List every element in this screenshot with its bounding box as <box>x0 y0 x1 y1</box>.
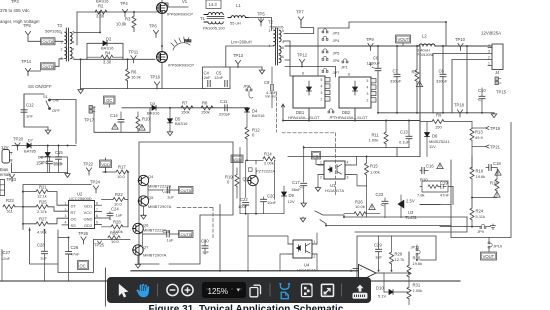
connector J4 <box>488 44 503 75</box>
zoom in icon <box>182 284 193 295</box>
zoom level dropdown 125% <box>202 282 246 298</box>
svg-text:JP5: JP5 <box>333 50 341 55</box>
node VOUT box top <box>396 35 411 46</box>
jumper JP3 <box>322 29 340 36</box>
svg-text:TP21: TP21 <box>490 144 501 149</box>
node OUTA box <box>41 38 56 45</box>
driver block box <box>139 142 233 264</box>
svg-text:3.30: 3.30 <box>96 14 105 19</box>
svg-text:TP8: TP8 <box>23 23 31 28</box>
svg-text:14.3: 14.3 <box>209 2 218 7</box>
svg-text:1uF: 1uF <box>167 194 174 199</box>
resistor R31 <box>407 282 422 304</box>
wire T3 secondary row y59 <box>74 58 155 60</box>
svg-text:VDD: VDD <box>101 162 110 167</box>
svg-text:Q5: Q5 <box>148 195 154 200</box>
svg-text:VOUT: VOUT <box>398 37 410 42</box>
svg-text:TP5: TP5 <box>257 11 265 16</box>
svg-text:S1: S1 <box>43 94 49 99</box>
cursor tool icon <box>119 284 129 298</box>
svg-text:1.00k: 1.00k <box>370 169 380 174</box>
jumper JP8 <box>243 83 253 98</box>
svg-text:C14: C14 <box>110 113 118 118</box>
svg-text:DT: DT <box>71 204 77 209</box>
svg-text:BAT85: BAT85 <box>24 148 37 153</box>
wire left vertical x77 <box>76 12 78 45</box>
resistor R11 <box>369 121 389 148</box>
capacitor C12 <box>21 94 34 127</box>
svg-text:2.37k: 2.37k <box>37 209 47 214</box>
resistor R22 <box>102 192 129 206</box>
test point TP7 <box>296 9 304 24</box>
test point TP13 <box>233 53 244 68</box>
wire Q3 <box>246 160 275 213</box>
svg-text:6: 6 <box>96 214 98 218</box>
test point TP23 <box>6 174 17 182</box>
svg-text:TP7: TP7 <box>296 9 304 14</box>
resistor R28 gate <box>108 230 120 244</box>
svg-text:SS: SS <box>71 223 77 228</box>
resistor R17 <box>103 165 128 180</box>
opamp comparator box <box>357 236 436 302</box>
svg-text:R4: R4 <box>105 50 111 55</box>
ground C17 <box>301 202 306 207</box>
svg-text:JP1: JP1 <box>341 64 349 69</box>
capacitor C25 <box>163 229 174 242</box>
resistor R12 <box>245 112 260 160</box>
bottom signal bus y271 <box>131 270 358 272</box>
test point TP9 <box>366 37 374 51</box>
ground near T2 <box>259 69 264 74</box>
svg-text:R9: R9 <box>436 112 442 117</box>
svg-text:R28: R28 <box>110 230 118 235</box>
svg-text:330uF: 330uF <box>436 78 448 83</box>
snapshot tool icon (blue) <box>279 284 290 299</box>
svg-text:1: 1 <box>488 62 490 66</box>
svg-text:J4: J4 <box>495 70 500 75</box>
capacitor C28 <box>37 230 48 282</box>
resistor R21 <box>36 184 48 198</box>
svg-text:12nF: 12nF <box>202 75 212 80</box>
svg-text:TP17: TP17 <box>84 118 95 123</box>
svg-text:R10: R10 <box>142 117 150 122</box>
svg-text:ON: ON <box>53 98 59 103</box>
wire opamp output <box>384 252 409 292</box>
test point TP20 <box>13 136 24 150</box>
test point TP18 <box>454 102 465 117</box>
svg-text:19.6k: 19.6k <box>413 261 423 266</box>
svg-text:0: 0 <box>252 132 255 137</box>
svg-text:R21: R21 <box>39 184 47 189</box>
net label 375 to 405 Vdc <box>0 8 30 13</box>
switch S1 <box>43 94 61 113</box>
svg-text:15V: 15V <box>36 161 44 166</box>
svg-text:C23: C23 <box>376 192 384 197</box>
svg-text:HPA418A—SLOT: HPA418A—SLOT <box>336 115 368 120</box>
svg-text:OUTA: OUTA <box>181 188 192 193</box>
capacitor C16 <box>420 163 443 174</box>
svg-text:OC: OC <box>80 263 86 268</box>
svg-text:TP24: TP24 <box>90 179 101 184</box>
svg-text:OC: OC <box>106 98 112 103</box>
svg-text:10.0: 10.0 <box>111 239 120 244</box>
svg-text:19.6k: 19.6k <box>476 174 486 179</box>
transformer T2 label <box>268 20 283 30</box>
capacitor C14 <box>110 112 124 132</box>
svg-text:TP3: TP3 <box>11 0 19 4</box>
svg-text:6: 6 <box>348 73 350 77</box>
resistor R10 <box>136 112 150 132</box>
jumper JP4 <box>322 36 340 43</box>
svg-text:1nF: 1nF <box>26 113 33 118</box>
svg-text:C27: C27 <box>3 250 11 255</box>
test point TP14 <box>21 59 32 76</box>
node OUTB box <box>41 63 56 70</box>
jumper JP1 <box>341 59 349 70</box>
mosfet Q2 <box>157 52 195 68</box>
svg-text:7.8k: 7.8k <box>417 192 425 197</box>
svg-text:C17: C17 <box>292 180 300 185</box>
separator <box>157 284 158 297</box>
svg-text:R14: R14 <box>264 151 272 156</box>
svg-text:47nF: 47nF <box>440 192 450 197</box>
svg-text:C18: C18 <box>493 161 501 166</box>
svg-text:JP10: JP10 <box>493 243 503 248</box>
overcurrent box <box>94 104 150 132</box>
svg-text:GD1: GD1 <box>84 204 93 209</box>
resistor R14 <box>263 151 275 165</box>
svg-text:D9: D9 <box>289 193 295 198</box>
node V1 label <box>182 0 188 4</box>
net label Bias external blue <box>0 167 11 177</box>
ground driver B <box>135 255 140 268</box>
resistor R5 <box>412 46 423 113</box>
resistor R26 <box>344 199 380 215</box>
wire left edge vertical <box>104 268 106 306</box>
svg-text:1: 1 <box>11 152 13 156</box>
svg-text:JP8: JP8 <box>243 83 251 88</box>
svg-text:C21: C21 <box>162 188 170 193</box>
power label VDD mid <box>231 155 243 163</box>
test point TP21 <box>472 144 501 149</box>
ground mid bottom <box>300 217 305 222</box>
dashed isolation boundary lower <box>177 208 213 240</box>
jumper JP7 <box>322 68 340 75</box>
transformer T2 <box>274 28 281 65</box>
node OUTB box driver <box>179 231 194 238</box>
svg-text:R23: R23 <box>6 198 14 203</box>
svg-text:R16: R16 <box>476 168 484 173</box>
svg-text:0.1uF: 0.1uF <box>399 139 410 144</box>
wire S1 to VCC rail <box>50 100 77 144</box>
svg-text:TP23: TP23 <box>6 177 17 182</box>
svg-text:4: 4 <box>73 41 75 45</box>
svg-text:GD2: GD2 <box>84 223 93 228</box>
resistor R24 <box>470 208 485 227</box>
bus D3 R7 R8 C11 y108 <box>122 107 248 109</box>
label box OC bottom <box>78 261 89 270</box>
wire ground rail y88.6 <box>81 59 205 88</box>
capacitor C17 <box>292 146 307 203</box>
test point TP24 <box>90 179 101 193</box>
ground JP9 <box>491 224 496 229</box>
diode D5 <box>167 108 188 136</box>
magnetizing inductance note <box>231 40 252 45</box>
svg-text:IPP60R099CP: IPP60R099CP <box>167 11 193 16</box>
transistor Q3 <box>243 168 276 186</box>
diode D2 <box>101 37 114 51</box>
vcc wire y156.5 <box>288 156 420 158</box>
note Danger High Voltage <box>0 19 40 24</box>
wire T2 bottom to C5 box <box>226 46 274 67</box>
svg-text:3: 3 <box>350 269 352 273</box>
svg-text:12.7k: 12.7k <box>395 257 405 262</box>
svg-text:L1: L1 <box>236 3 241 8</box>
svg-text:JP11: JP11 <box>411 244 421 249</box>
svg-text:2: 2 <box>314 255 316 259</box>
capacitor bank box C4 C5 <box>203 67 231 89</box>
wire long y232 <box>355 217 467 232</box>
ic U2 label <box>69 192 92 201</box>
svg-text:R27: R27 <box>39 216 47 221</box>
svg-text:C24: C24 <box>111 206 119 211</box>
wire bottom left frame <box>30 228 130 273</box>
svg-text:3: 3 <box>488 50 490 54</box>
diode D1 top left <box>96 0 109 4</box>
copy pages icon <box>250 285 261 297</box>
capacitor C6 <box>367 46 382 113</box>
wire feedback mid <box>420 198 497 209</box>
svg-text:11V: 11V <box>429 144 436 149</box>
svg-text:Q7: Q7 <box>143 244 149 249</box>
diode D7 <box>24 138 37 153</box>
svg-text:TP22: TP22 <box>83 161 94 166</box>
resistor R16 <box>470 156 485 198</box>
svg-text:TP10: TP10 <box>455 37 466 42</box>
svg-text:FB: FB <box>313 153 318 158</box>
ic U2 UCC25600 <box>65 201 102 229</box>
ground output rail <box>491 113 496 118</box>
svg-text:OUTB: OUTB <box>181 232 192 237</box>
svg-text:1.00k: 1.00k <box>369 138 379 143</box>
svg-text:R25: R25 <box>39 199 47 204</box>
svg-text:R24: R24 <box>476 208 484 213</box>
capacitor C23 <box>376 192 389 218</box>
svg-text:OC: OC <box>71 216 77 221</box>
wire ladder to U2 pins <box>48 192 68 225</box>
wire box top to ground <box>230 67 262 69</box>
wire TP7 to T2 pin <box>284 21 314 34</box>
svg-text:C11: C11 <box>220 99 228 104</box>
test point TP11 <box>129 49 139 62</box>
viewer toolbar <box>107 277 371 303</box>
svg-text:12V: 12V <box>288 199 295 204</box>
transistor Q6 <box>133 222 167 233</box>
svg-text:150k: 150k <box>201 110 210 115</box>
rectifier DB1 <box>293 72 330 108</box>
capacitor C22 <box>238 197 249 214</box>
svg-text:8: 8 <box>73 57 75 61</box>
svg-text:JP4: JP4 <box>333 38 341 43</box>
svg-text:BAS16: BAS16 <box>175 121 188 126</box>
jumper JP2 <box>328 109 337 120</box>
connector TP15 <box>495 77 507 94</box>
resistor R25 <box>36 199 48 213</box>
resistor R7 <box>181 101 193 115</box>
svg-text:JP7: JP7 <box>333 70 341 75</box>
capacitor C26 <box>66 238 81 282</box>
svg-text:TP13: TP13 <box>233 53 244 58</box>
transformer T3 pin numbers <box>61 31 75 61</box>
svg-text:D6: D6 <box>432 134 438 139</box>
svg-text:4: 4 <box>347 161 349 165</box>
transformer T1 aux box 14.3 <box>206 0 221 9</box>
ground bias return <box>65 173 70 178</box>
svg-text:10uF: 10uF <box>238 204 248 209</box>
svg-text:2: 2 <box>65 208 67 212</box>
resistor R23 <box>3 198 23 213</box>
capacitor C4 <box>202 70 212 86</box>
svg-text:5: 5 <box>282 29 284 33</box>
svg-text:C12: C12 <box>26 102 34 107</box>
upper return bus y22 <box>349 22 446 46</box>
svg-text:R15: R15 <box>370 164 378 169</box>
svg-text:12nF: 12nF <box>214 75 224 80</box>
inductor L1 <box>228 3 248 26</box>
output bus y46 <box>285 45 492 47</box>
svg-text:+: + <box>360 268 362 272</box>
svg-text:T3: T3 <box>57 23 63 28</box>
svg-text:PG0120NL: PG0120NL <box>417 53 434 57</box>
test point TP5 <box>257 11 265 26</box>
capacitor C24 <box>107 206 123 219</box>
bottom ground bus y281 <box>0 280 460 282</box>
svg-text:22uF: 22uF <box>53 161 63 166</box>
svg-text:1: 1 <box>65 201 67 205</box>
wire OUTA to T3 <box>28 39 63 76</box>
svg-text:330uF: 330uF <box>390 78 402 83</box>
secondary return bus y120.5 <box>283 46 420 157</box>
resistor R4 <box>87 50 123 64</box>
svg-text:TP6: TP6 <box>149 23 157 28</box>
jumper JP5 <box>322 49 340 56</box>
node TP3 label <box>11 0 19 4</box>
svg-text:VOUT: VOUT <box>483 254 495 259</box>
rectifier DB1 label <box>288 110 320 120</box>
vcc label 15V <box>36 161 44 166</box>
svg-text:8: 8 <box>282 46 284 50</box>
svg-text:5: 5 <box>321 78 323 82</box>
svg-text:TP9: TP9 <box>366 37 374 42</box>
transistor Q4 <box>138 174 171 189</box>
resistor R9 <box>420 112 472 129</box>
svg-text:RT: RT <box>71 210 77 215</box>
capacitor C27 <box>0 250 11 281</box>
svg-text:C16: C16 <box>426 163 434 168</box>
test point TP22 <box>83 161 94 175</box>
svg-text:1uF: 1uF <box>116 212 123 217</box>
wire long y225.5 <box>320 220 451 226</box>
svg-text:C15: C15 <box>55 150 63 155</box>
capacitor C8 <box>436 46 448 113</box>
separator <box>270 284 271 297</box>
jumper JP9 <box>440 224 491 234</box>
capacitor C11 <box>219 99 231 117</box>
svg-text:375 to 405 Vdc: 375 to 405 Vdc <box>0 8 30 13</box>
svg-text:12nF: 12nF <box>1 256 11 261</box>
wire L1 to T2 <box>249 18 272 31</box>
connector left edge <box>0 180 5 196</box>
wire driver B <box>143 232 179 246</box>
svg-text:3: 3 <box>367 92 369 96</box>
svg-text:D7: D7 <box>28 138 33 142</box>
svg-text:150k: 150k <box>181 110 190 115</box>
svg-text:2: 2 <box>320 176 322 180</box>
transformer T1 <box>200 13 225 31</box>
page blocks icon <box>302 284 313 297</box>
svg-text:2: 2 <box>367 98 369 102</box>
svg-text:1uF: 1uF <box>167 237 174 242</box>
opto U1 label <box>325 183 344 193</box>
svg-text:2: 2 <box>321 97 323 101</box>
svg-text:T1: T1 <box>200 16 206 21</box>
svg-text:C9: C9 <box>264 80 270 85</box>
svg-text:TP14: TP14 <box>21 59 32 64</box>
opto U1 <box>318 161 351 180</box>
svg-text:6: 6 <box>282 55 284 59</box>
zener D10 <box>376 285 409 298</box>
mosfet Q1 <box>157 3 194 17</box>
svg-text:10.0: 10.0 <box>117 174 126 179</box>
thermistor R52 <box>171 37 192 50</box>
current sense arrow <box>281 104 284 121</box>
power label VDD <box>100 160 112 168</box>
svg-text:TP11: TP11 <box>129 49 139 54</box>
svg-text:C13: C13 <box>400 130 408 135</box>
present/upload icon <box>107 285 550 310</box>
svg-text:OUTB: OUTB <box>43 64 54 69</box>
svg-text:MMBT2907A: MMBT2907A <box>148 204 172 209</box>
svg-text:TP15: TP15 <box>496 89 507 94</box>
resistor R3 <box>116 12 136 32</box>
svg-text:JP3: JP3 <box>333 30 341 35</box>
svg-text:TP16: TP16 <box>150 75 161 80</box>
shunt U3 TL431 <box>398 195 418 220</box>
capacitor C21 <box>162 187 174 199</box>
svg-text:GND: GND <box>84 216 93 221</box>
svg-text:C26: C26 <box>71 245 79 250</box>
capacitor C15 <box>54 146 64 173</box>
svg-text:5.1V: 5.1V <box>378 293 387 298</box>
svg-text:10.0k: 10.0k <box>116 21 127 26</box>
svg-text:JP6: JP6 <box>333 58 341 63</box>
svg-text:VCC: VCC <box>84 210 93 215</box>
opto U4 label <box>297 262 316 272</box>
svg-text:D10: D10 <box>376 285 384 290</box>
wire driver A <box>138 181 178 198</box>
resistor R8 <box>201 101 213 115</box>
connector TP17 <box>84 106 95 123</box>
wire sense divider bottom <box>304 148 409 157</box>
svg-text:49.9: 49.9 <box>475 135 484 140</box>
test point TP16 <box>150 75 161 89</box>
wire jumper column <box>318 28 349 75</box>
svg-text:anger, High Voltage!: anger, High Voltage! <box>0 19 40 24</box>
ground U1 pin2 <box>315 175 320 192</box>
resistor R2 <box>95 4 107 19</box>
jumper JP11 <box>411 244 421 260</box>
svg-text:3: 3 <box>65 214 67 218</box>
